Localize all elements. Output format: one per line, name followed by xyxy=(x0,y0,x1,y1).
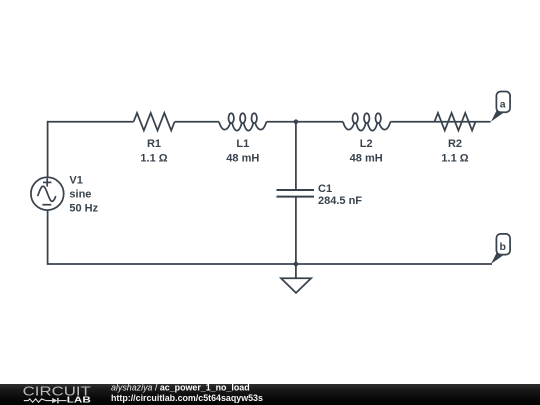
svg-text:48 mH: 48 mH xyxy=(350,152,383,164)
svg-text:a: a xyxy=(500,98,506,110)
svg-text:48 mH: 48 mH xyxy=(226,152,259,164)
svg-text:V1: V1 xyxy=(69,175,82,187)
svg-text:LAB: LAB xyxy=(67,396,92,405)
svg-text:1.1 Ω: 1.1 Ω xyxy=(140,152,167,164)
svg-text:R1: R1 xyxy=(147,138,161,150)
svg-text:R2: R2 xyxy=(448,138,462,150)
svg-text:L1: L1 xyxy=(236,138,249,150)
svg-text:alyshaziya / ac_power_1_no_loa: alyshaziya / ac_power_1_no_load xyxy=(111,384,250,393)
svg-text:C1: C1 xyxy=(318,183,332,195)
svg-text:50 Hz: 50 Hz xyxy=(69,202,98,214)
svg-text:1.1 Ω: 1.1 Ω xyxy=(441,152,468,164)
svg-text:sine: sine xyxy=(69,189,91,201)
svg-text:284.5 nF: 284.5 nF xyxy=(318,195,362,207)
svg-text:http://circuitlab.com/c5t64saq: http://circuitlab.com/c5t64saqyw53s xyxy=(111,393,263,403)
svg-text:L2: L2 xyxy=(360,138,373,150)
svg-text:b: b xyxy=(499,241,505,253)
